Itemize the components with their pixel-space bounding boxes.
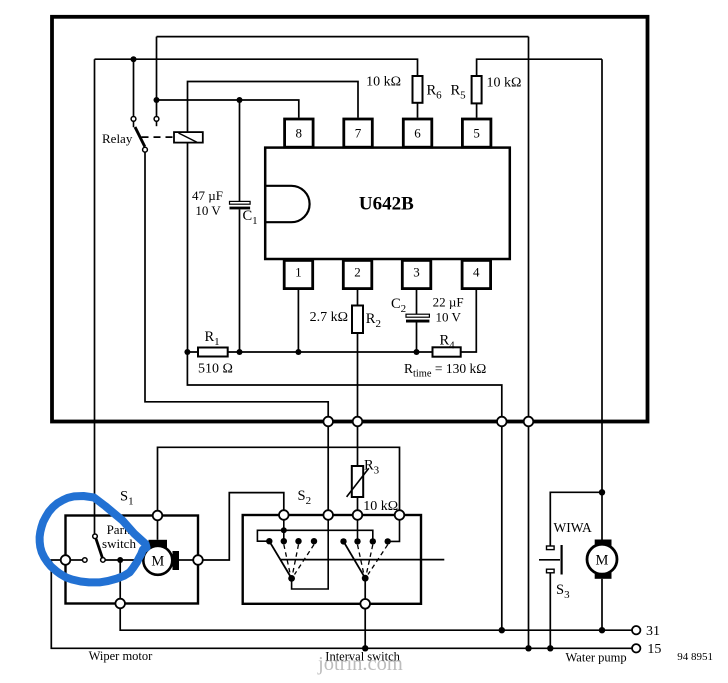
wire S1 left terminal to park contact — [70, 559, 82, 561]
svg-text:M: M — [596, 553, 609, 569]
svg-text:3: 3 — [413, 264, 420, 279]
svg-text:15: 15 — [647, 642, 661, 657]
capacitor C1 — [230, 201, 251, 209]
wire park common down — [119, 560, 121, 599]
wire R5 top to water pump branch — [477, 59, 602, 76]
left common dot — [288, 575, 295, 582]
outer control-unit box — [52, 17, 648, 422]
left selector solid arm — [269, 541, 291, 578]
svg-text:jotrin.com: jotrin.com — [317, 653, 403, 675]
junction pin8 net at relay right — [154, 97, 160, 103]
wire motor right to S1 right terminal — [179, 559, 193, 561]
wire S1 right terminal up to S2 first terminal — [203, 493, 284, 560]
pin 1 — [284, 260, 313, 288]
border pass circle R2 R3 net — [353, 417, 363, 427]
wire water pump vertical — [601, 59, 603, 539]
wire pin7 net to relay coil — [188, 82, 359, 353]
wire relay left contact drop — [133, 59, 135, 116]
wire t4 to right dot4 — [391, 520, 400, 542]
wire top line to relay right contact — [156, 37, 158, 117]
svg-text:Wiper motor: Wiper motor — [89, 649, 154, 663]
S2 terminal 2 — [323, 510, 333, 520]
interval switch box S2 — [243, 515, 421, 604]
pin 7 — [344, 119, 373, 147]
relay coil K1 — [174, 132, 203, 143]
wire S2 t1 feed bus — [284, 520, 373, 539]
right selector solid arm — [344, 541, 366, 578]
junction C1 top — [237, 97, 243, 103]
right contact dot 1 — [340, 538, 346, 544]
junction C2 bottom — [414, 349, 420, 355]
junction park common — [117, 557, 123, 563]
junction ground at 31 line — [499, 627, 505, 633]
park switch left contact — [83, 558, 88, 563]
wire R3 bottom to S2 — [357, 497, 359, 511]
wire R2 bottom to R3 top — [357, 333, 359, 466]
svg-text:U642B: U642B — [359, 193, 414, 214]
S1 top terminal — [153, 511, 163, 521]
park switch arm contact — [101, 558, 106, 563]
S2 terminal 3 — [353, 510, 363, 520]
water pump motor M — [587, 540, 617, 579]
resistor R5 — [472, 76, 482, 103]
wire R6 bottom to pin6 — [417, 103, 419, 118]
pin 6 — [403, 119, 432, 147]
wire right common to bottom terminal — [364, 578, 366, 599]
junction 15 feed at 15 line — [525, 645, 531, 651]
left contact dot 3 — [295, 538, 301, 544]
wire pin1 to R1 row — [297, 290, 299, 353]
junction relay left contact top — [131, 56, 137, 62]
pin 2 — [343, 260, 372, 288]
svg-text:47 µF: 47 µF — [192, 188, 223, 203]
wire S3 bottom to 15 line — [549, 573, 551, 649]
right contact dot 4 — [385, 538, 391, 544]
S2 terminal 4 — [395, 510, 405, 520]
left contact dot 4 — [311, 538, 317, 544]
junction S3 at 15 line — [547, 645, 553, 651]
terminal 15 — [632, 644, 640, 652]
relay actuation dashed link — [142, 136, 175, 138]
right common dot — [362, 575, 369, 582]
wire 15 feed vertical right — [528, 37, 530, 649]
svg-text:Water pump: Water pump — [566, 651, 627, 665]
wire ground run to 31 — [187, 352, 501, 630]
wire C1 bottom to R1 row — [239, 209, 241, 352]
resistor R2 — [352, 306, 363, 334]
wire left long vertical to park switch pivot — [94, 59, 96, 534]
svg-text:4: 4 — [473, 264, 480, 279]
wire R1 R4 row — [187, 351, 432, 353]
svg-text:22 µF: 22 µF — [433, 294, 464, 309]
right selector dashed arms — [358, 545, 388, 575]
wire S2 bottom to 15 line — [364, 609, 366, 649]
junction water pump at 31 line — [599, 627, 605, 633]
resistor R6 — [413, 76, 423, 103]
wire pin3 to C2 — [416, 290, 418, 315]
left selector dashed arms — [284, 545, 314, 575]
wiper motor M — [143, 540, 179, 575]
svg-text:6: 6 — [414, 126, 421, 141]
wire feed bus left leg — [257, 530, 283, 541]
svg-text:31: 31 — [646, 624, 660, 639]
junction S2 feed bus tee — [281, 527, 287, 533]
junction WIWA tap — [599, 489, 605, 495]
left contact dot 2 — [281, 538, 287, 544]
junction S2 at 15 line — [362, 645, 368, 651]
right contact dot 3 — [370, 538, 376, 544]
svg-text:10 kΩ: 10 kΩ — [487, 75, 522, 90]
wire water pump to 31 line — [601, 579, 603, 630]
relay left contact stub — [133, 121, 135, 127]
pin 3 — [402, 260, 431, 288]
wire S1 bottom to terminal 31 line — [120, 608, 632, 630]
wire C1 branch — [239, 100, 241, 201]
junction C1 bottom — [237, 349, 243, 355]
wire relay arm contact to S2 terminal — [145, 152, 328, 511]
S1 bottom terminal — [115, 599, 125, 609]
pin 8 — [285, 119, 314, 147]
wire pin8 net horizontal — [157, 100, 299, 118]
IC orientation notch — [265, 186, 309, 222]
svg-text:WIWA: WIWA — [554, 520, 592, 535]
border pass circle ground net — [497, 417, 507, 427]
S2 terminal 1 — [279, 510, 289, 520]
border pass circle S2 second terminal net — [323, 417, 333, 427]
relay right contact stub — [156, 121, 158, 126]
S1 left terminal — [61, 555, 71, 565]
switch S3 — [539, 545, 562, 575]
border pass circle 15 net — [524, 417, 534, 427]
relay switch arm — [135, 127, 145, 147]
svg-text:5: 5 — [473, 126, 480, 141]
svg-text:94 8951: 94 8951 — [677, 651, 713, 663]
junction R1 left — [184, 349, 190, 355]
svg-text:2.7 kΩ: 2.7 kΩ — [310, 310, 348, 325]
park switch pivot contact — [93, 534, 98, 539]
resistor R4 — [433, 347, 461, 356]
wire wiper speed tap stub — [281, 559, 445, 561]
resistor R3 — [347, 466, 369, 497]
svg-text:switch: switch — [102, 536, 136, 551]
svg-text:2: 2 — [354, 264, 361, 279]
wire t3 to right dot2 — [357, 520, 359, 539]
capacitor C2 — [406, 314, 429, 322]
wire S1 top to S2 fourth terminal — [158, 447, 400, 511]
svg-text:7: 7 — [355, 126, 362, 141]
pin 4 — [462, 260, 491, 288]
blue annotation scribble around park switch — [40, 496, 147, 582]
relay right contact — [154, 117, 159, 122]
park switch arm — [96, 539, 102, 558]
svg-text:10 kΩ: 10 kΩ — [363, 499, 398, 514]
op IC U642B body — [265, 148, 510, 259]
right contact dot 2 — [354, 538, 360, 544]
wire top supply line — [157, 36, 529, 38]
left contact dot 1 — [266, 538, 272, 544]
wire motor top to S1 top terminal — [157, 520, 159, 540]
svg-text:10 V: 10 V — [436, 309, 462, 324]
relay left contact — [131, 117, 136, 122]
svg-text:510 Ω: 510 Ω — [198, 362, 233, 377]
wire S1 left to terminal 15 line — [51, 560, 632, 648]
svg-text:10 kΩ: 10 kΩ — [366, 75, 401, 90]
S1 right terminal — [193, 555, 203, 565]
terminal 31 — [632, 626, 640, 634]
wire pin4 to R4 — [461, 290, 477, 353]
svg-text:10 V: 10 V — [195, 203, 221, 218]
wire t2 to left common — [292, 520, 329, 589]
wire C2 bottom to R1 row — [416, 323, 418, 353]
park switch label — [102, 522, 136, 551]
svg-text:8: 8 — [296, 126, 303, 141]
wire pin2 to R2 — [357, 290, 359, 306]
wiper motor box S1 — [66, 516, 199, 604]
S2 bottom terminal — [360, 599, 370, 609]
resistor R1 — [198, 348, 228, 357]
wire t1 to left dot2 — [283, 530, 285, 538]
svg-text:Relay: Relay — [102, 131, 133, 146]
pin 5 — [462, 119, 491, 147]
wire park arm to motor — [105, 559, 143, 561]
junction pin1 row — [295, 349, 301, 355]
wire +12V line to R6 — [95, 59, 418, 76]
svg-text:M: M — [151, 554, 164, 570]
wire WIWA branch — [550, 492, 602, 546]
relay arm bottom contact — [143, 147, 148, 152]
wire R5 bottom to pin5 — [476, 103, 478, 117]
svg-text:1: 1 — [295, 264, 302, 279]
